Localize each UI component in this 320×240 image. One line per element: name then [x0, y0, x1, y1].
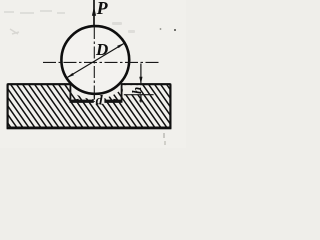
h dimension lower arrow (up): [139, 95, 142, 102]
d arrow right: [113, 99, 121, 102]
vertical centerline: [93, 27, 95, 103]
groove right wall: [121, 84, 123, 102]
svg-text:D: D: [95, 40, 108, 59]
block bottom edge: [7, 127, 172, 130]
force line P: [93, 0, 95, 27]
diameter line: [67, 43, 125, 78]
ghost marks upper right: [112, 22, 135, 33]
block side edges: [8, 84, 171, 128]
groove interior hatching (with halo around ball): [0, 84, 204, 130]
centerline stub through d pocket: [93, 95, 95, 102]
speck right edge: [174, 29, 176, 31]
groove bottom: [70, 101, 121, 103]
d arrow left: [71, 99, 79, 102]
ghost bleed-through marks top-left: [4, 11, 65, 34]
h dimension upper leader: [140, 64, 142, 85]
horizontal centerline: [43, 61, 159, 63]
diameter arrowhead lower-left: [66, 73, 74, 78]
d dimension line: [71, 99, 121, 101]
block top edge segments: [8, 83, 171, 85]
speck near right edge (faint): [160, 28, 162, 30]
groove left wall: [69, 84, 71, 102]
h dimension lower leader: [140, 95, 142, 103]
svg-text:P: P: [96, 0, 109, 18]
svg-text:d: d: [96, 94, 104, 109]
arrowhead P: [92, 7, 96, 16]
svg-text:h: h: [129, 87, 144, 94]
block hatching: [0, 84, 204, 130]
ball-bottom extension line: [124, 94, 154, 96]
faint marks below block bottom right: [163, 133, 165, 138]
label d backing: [94, 95, 105, 104]
block (hatched): [8, 84, 171, 128]
paper background: [0, 0, 186, 148]
ball D: [61, 26, 129, 94]
diameter arrowhead upper-right: [117, 43, 125, 48]
h dimension upper arrow (down): [139, 77, 142, 84]
label h backing: [123, 85, 140, 94]
